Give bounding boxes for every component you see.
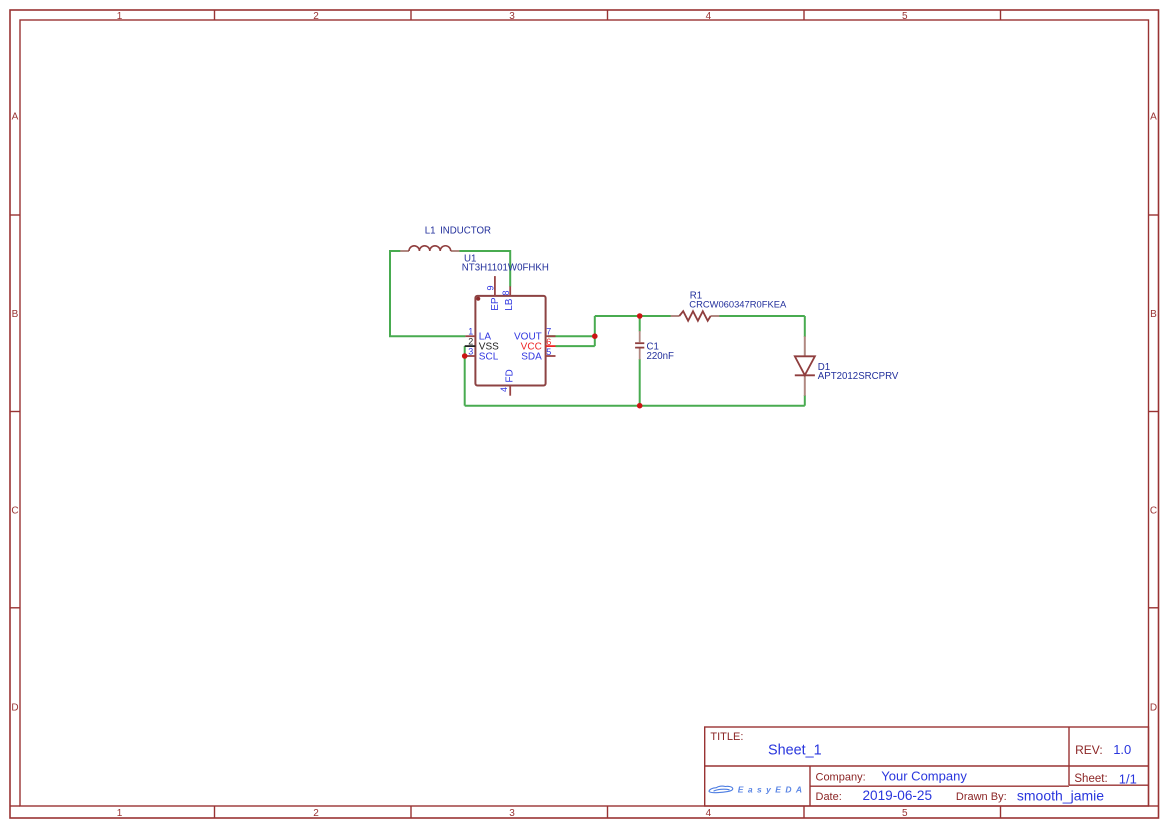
U1 pin3 stub xyxy=(465,355,475,357)
junction top rail at C1 xyxy=(637,313,643,319)
svg-text:2: 2 xyxy=(468,337,473,347)
svg-text:9: 9 xyxy=(486,285,496,290)
svg-text:EasyEDA: EasyEDA xyxy=(738,785,807,795)
frame column ticks bottom xyxy=(215,806,1001,818)
svg-text:220nF: 220nF xyxy=(647,351,675,362)
svg-text:L1: L1 xyxy=(425,226,436,237)
U1 pin1 dot marker xyxy=(476,297,480,301)
svg-text:2019-06-25: 2019-06-25 xyxy=(863,788,933,803)
svg-text:8: 8 xyxy=(501,290,511,295)
op chip U1 body xyxy=(475,296,545,386)
svg-text:3: 3 xyxy=(509,11,515,22)
wire: C1 top lead xyxy=(639,316,641,332)
junction bottom rail at C1 xyxy=(637,403,643,409)
svg-text:D: D xyxy=(1150,702,1157,713)
wire: inductor left lead to pin1 LA xyxy=(390,251,465,336)
U1 pin9 stub xyxy=(494,276,496,296)
svg-text:SDA: SDA xyxy=(521,352,542,363)
svg-text:B: B xyxy=(1150,309,1157,320)
U1 pin5 stub xyxy=(546,355,556,357)
frame column ticks top xyxy=(215,10,1001,20)
svg-text:TITLE:: TITLE: xyxy=(710,731,743,743)
frame row letters left xyxy=(11,112,18,714)
frame row letters right xyxy=(1150,112,1157,714)
svg-text:Your Company: Your Company xyxy=(881,769,967,784)
resistor R1 xyxy=(671,311,720,321)
wire: C1 bottom lead xyxy=(639,359,641,406)
wire: D1 cathode drop xyxy=(804,395,806,406)
U1 pin6 stub (red VCC) xyxy=(546,345,556,347)
U1 pin8 stub xyxy=(509,286,511,296)
frame column numbers bottom xyxy=(117,808,908,819)
svg-text:4: 4 xyxy=(706,11,712,22)
svg-text:6: 6 xyxy=(546,337,551,347)
svg-text:1.0: 1.0 xyxy=(1113,742,1131,757)
svg-text:3: 3 xyxy=(468,347,473,357)
U1 pin2 stub (black VSS) xyxy=(465,345,476,347)
junction at pin3 SCL xyxy=(462,353,468,359)
svg-text:INDUCTOR: INDUCTOR xyxy=(440,226,491,237)
svg-text:REV:: REV: xyxy=(1075,743,1103,757)
svg-text:C: C xyxy=(11,506,18,517)
wire: pin2 VSS drop to bottom rail xyxy=(464,346,466,406)
svg-text:smooth_jamie: smooth_jamie xyxy=(1017,788,1104,804)
frame column numbers top xyxy=(117,11,908,22)
wire: pin7 VOUT to junction xyxy=(548,335,595,337)
svg-text:5: 5 xyxy=(902,808,908,819)
svg-text:Sheet:: Sheet: xyxy=(1074,773,1107,785)
wire: junction riser pin7/pin6 to top rail xyxy=(594,316,596,346)
svg-text:3: 3 xyxy=(509,808,515,819)
svg-text:1: 1 xyxy=(117,808,123,819)
svg-text:5: 5 xyxy=(546,347,551,357)
svg-text:CRCW060347R0FKEA: CRCW060347R0FKEA xyxy=(689,299,787,310)
capacitor C1 xyxy=(635,331,644,360)
svg-text:A: A xyxy=(12,112,19,123)
inductor L1 xyxy=(400,246,459,251)
frame row ticks left xyxy=(10,215,20,608)
diode D1 xyxy=(795,336,815,396)
wire: pin6 VCC run xyxy=(556,345,595,347)
wire: top rail left of R1 xyxy=(595,315,672,317)
junction at pin7 VOUT xyxy=(592,333,598,339)
svg-text:1: 1 xyxy=(468,327,473,337)
svg-text:Company:: Company: xyxy=(816,772,866,784)
svg-text:Sheet_1: Sheet_1 xyxy=(768,743,822,759)
wire: D1 anode drop xyxy=(804,316,806,337)
svg-text:NT3H1101W0FHKH: NT3H1101W0FHKH xyxy=(462,262,549,273)
U1 pin1 stub xyxy=(465,335,475,337)
svg-text:1: 1 xyxy=(117,11,123,22)
wire: bottom rail xyxy=(465,405,805,407)
svg-text:SCL: SCL xyxy=(479,351,499,362)
wire: top rail right of R1 xyxy=(718,315,805,317)
wire: inductor net, pin8 LB up and left to inductor right lead xyxy=(459,251,510,287)
U1 pin7 stub xyxy=(546,335,556,337)
svg-text:APT2012SRCPRV: APT2012SRCPRV xyxy=(818,371,899,382)
frame row ticks right xyxy=(1149,215,1159,608)
svg-text:2: 2 xyxy=(313,808,319,819)
svg-text:4: 4 xyxy=(706,808,712,819)
svg-text:7: 7 xyxy=(546,327,551,337)
svg-text:B: B xyxy=(12,309,19,320)
svg-text:4: 4 xyxy=(499,387,509,392)
EasyEDA logo icon xyxy=(709,786,733,793)
svg-text:D: D xyxy=(11,702,18,713)
U1 pin4 stub xyxy=(509,386,511,396)
svg-text:LB: LB xyxy=(504,298,515,311)
svg-text:A: A xyxy=(1150,112,1157,123)
svg-text:FD: FD xyxy=(505,369,516,382)
svg-text:C: C xyxy=(1150,506,1157,517)
title block outline xyxy=(705,727,1149,806)
svg-text:Date:: Date: xyxy=(816,791,842,803)
svg-text:5: 5 xyxy=(902,11,908,22)
svg-text:EP: EP xyxy=(490,297,501,311)
svg-text:Drawn By:: Drawn By: xyxy=(956,791,1007,803)
svg-text:2: 2 xyxy=(313,11,319,22)
svg-text:1/1: 1/1 xyxy=(1119,771,1137,786)
